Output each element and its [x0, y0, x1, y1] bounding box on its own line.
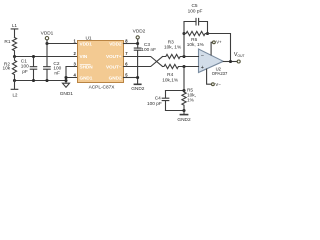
- ground GND2 b: [180, 114, 187, 116]
- resistor R1: [12, 38, 16, 57]
- svg-text:GND1: GND1: [60, 91, 74, 97]
- wire VIN row: [15, 56, 78, 58]
- svg-text:U1: U1: [85, 35, 91, 41]
- junction dot C2 bottom: [45, 79, 48, 82]
- wire feedback riser: [184, 22, 196, 57]
- svg-text:8: 8: [125, 39, 128, 44]
- svg-text:OPA237: OPA237: [212, 71, 228, 76]
- svg-text:100 pF: 100 pF: [147, 101, 162, 107]
- terminal V-: [212, 83, 215, 86]
- svg-text:VIN: VIN: [80, 54, 88, 59]
- node A dot: [13, 55, 16, 58]
- junction dot R3 out: [182, 55, 185, 58]
- wire VDD1 to pin1: [47, 40, 78, 44]
- wire output: [223, 61, 237, 63]
- wire pin8 VDD2: [124, 43, 138, 45]
- svg-text:100 nF: 100 nF: [141, 47, 156, 53]
- svg-text:10k,1%: 10k,1%: [162, 77, 179, 83]
- terminal VDD1: [45, 37, 48, 40]
- capacitor C5: [196, 18, 208, 33]
- junction dot VDD2: [136, 42, 139, 45]
- junction dot divider bottom: [182, 109, 185, 112]
- SHDN overline: [80, 63, 91, 65]
- svg-text:VOUT: VOUT: [234, 52, 245, 58]
- svg-text:VDD2: VDD2: [133, 28, 146, 34]
- wire pin6 VOUT-: [124, 57, 163, 67]
- svg-text:C5: C5: [191, 3, 197, 9]
- svg-text:C1: C1: [21, 59, 27, 65]
- wire pin5 GND2: [124, 77, 138, 79]
- capacitor C3: [134, 48, 141, 84]
- wire ground rail: [15, 80, 67, 82]
- junction dot fb left: [182, 32, 185, 35]
- op-amp U2: [199, 49, 224, 73]
- terminal L2: [11, 81, 18, 90]
- svg-text:100: 100: [21, 64, 29, 70]
- svg-text:VDD1: VDD1: [80, 42, 93, 47]
- junction dot pin4: [64, 76, 67, 79]
- svg-text:4: 4: [73, 73, 76, 78]
- svg-text:ACPL-C87X: ACPL-C87X: [89, 85, 116, 91]
- svg-text:GND2: GND2: [109, 76, 122, 81]
- junction dot C1 bottom: [32, 79, 35, 82]
- svg-text:GND2: GND2: [131, 86, 145, 92]
- svg-text:SHDN: SHDN: [80, 65, 94, 70]
- resistor R4: [163, 64, 199, 68]
- svg-text:10k, 1%: 10k, 1%: [164, 45, 182, 51]
- svg-text:nF: nF: [54, 70, 60, 76]
- svg-text:L1: L1: [12, 23, 17, 28]
- IC U1 ACPL-C87X: [78, 41, 124, 83]
- wire feedback to output: [208, 34, 231, 62]
- wire divider top: [166, 90, 185, 92]
- wire to GND2 b: [183, 111, 185, 114]
- resistor R6: [184, 31, 208, 35]
- svg-text:10k: 10k: [3, 66, 11, 72]
- ground GND2 a: [134, 83, 140, 85]
- svg-text:VDD1: VDD1: [41, 31, 54, 37]
- svg-text:+: +: [201, 65, 204, 71]
- svg-text:C4: C4: [155, 96, 161, 102]
- svg-text:−: −: [201, 54, 204, 60]
- junction dot output: [229, 60, 232, 63]
- resistor R5: [182, 91, 186, 111]
- op-amp V- lead: [207, 69, 212, 84]
- ground GND1: [63, 83, 70, 87]
- wire divider bottom: [166, 110, 185, 112]
- svg-text:2: 2: [73, 51, 76, 56]
- svg-text:R3: R3: [168, 39, 174, 45]
- svg-text:V−: V−: [215, 82, 221, 87]
- svg-text:R4: R4: [167, 72, 173, 78]
- terminal L1: [11, 29, 18, 38]
- capacitor C1: [30, 57, 36, 81]
- junction dot rail-GND1: [64, 79, 67, 82]
- svg-text:VDD2: VDD2: [109, 42, 122, 47]
- wire pin7 VOUT+: [124, 57, 163, 67]
- resistor R2: [12, 57, 16, 81]
- svg-text:100 pF: 100 pF: [188, 9, 203, 15]
- svg-text:GND2: GND2: [177, 117, 191, 123]
- svg-text:7: 7: [125, 51, 128, 56]
- op-amp V+ lead: [211, 42, 212, 55]
- junction dot VDD1: [45, 42, 48, 45]
- junction dot R4 out: [182, 65, 185, 68]
- junction dot pin5: [136, 76, 139, 79]
- svg-text:pF: pF: [22, 69, 28, 75]
- svg-text:VOUT+: VOUT+: [106, 54, 122, 59]
- capacitor C4: [162, 91, 169, 111]
- wire VDD2 drop: [137, 39, 139, 48]
- terminal V+: [213, 41, 216, 44]
- terminal VDD2: [136, 36, 139, 39]
- svg-text:V+: V+: [216, 40, 222, 45]
- svg-text:10k, 1%: 10k, 1%: [187, 42, 205, 48]
- capacitor C2: [44, 44, 51, 81]
- wire R4 node drop: [183, 67, 185, 91]
- junction dot divider top: [182, 89, 185, 92]
- svg-text:L2: L2: [13, 93, 18, 98]
- junction dot fb right: [206, 32, 209, 35]
- svg-text:5: 5: [125, 73, 128, 78]
- resistor R3: [163, 54, 199, 58]
- svg-text:R1: R1: [4, 39, 10, 45]
- junction dot rail-R2: [13, 79, 16, 82]
- svg-text:1%: 1%: [187, 98, 195, 104]
- svg-text:3: 3: [73, 62, 76, 67]
- junction dot C1 top: [32, 55, 35, 58]
- svg-text:6: 6: [125, 62, 128, 67]
- svg-text:VOUT−: VOUT−: [106, 65, 122, 70]
- svg-text:1: 1: [73, 39, 76, 44]
- svg-text:GND1: GND1: [80, 76, 93, 81]
- wire SHDN tie: [66, 67, 78, 84]
- terminal VOUT: [237, 60, 240, 63]
